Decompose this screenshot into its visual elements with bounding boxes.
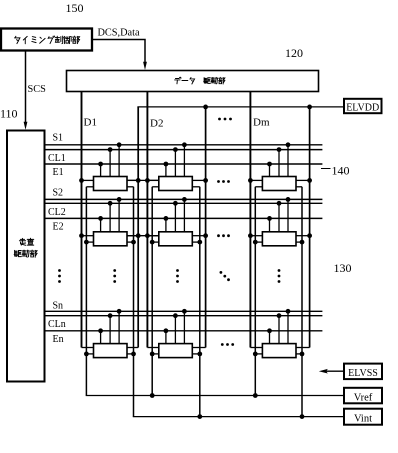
Vint chain line col 1: [133, 187, 135, 417]
ELVDD column line col 2: [205, 107, 207, 348]
svg-text:110: 110: [0, 107, 18, 121]
svg-text:S2: S2: [53, 187, 64, 198]
ellipsis pixel row 1: [217, 180, 220, 183]
svg-text:DCS,Data: DCS,Data: [98, 27, 140, 38]
Vref chain line col 2: [151, 187, 153, 396]
pixel Pnm wire to Vint chain: [296, 353, 302, 355]
pixel P12 junction on E line: [164, 162, 169, 167]
pixel P1m wire loop to Vint chain: [296, 186, 302, 188]
pixel P1m junction on ELVDD column: [307, 178, 312, 183]
Vint supply box: [344, 409, 382, 425]
pixel Pnm box: [262, 344, 296, 358]
pixel P2m group: [248, 197, 312, 246]
pixel Pn1 junction on Vref chain: [84, 352, 89, 357]
pixel Pn1 wire stub to E line: [100, 331, 102, 344]
pixel P22 wire stub to E line: [165, 218, 167, 231]
ellipsis between D2 and Dm labels: [218, 118, 221, 121]
pixel Pn1 box: [94, 344, 128, 358]
wire Vref rail: [86, 395, 344, 397]
pixel P2m junction on Vint chain: [300, 240, 305, 245]
pixel Pnm wire corner from ELVDD column: [296, 347, 310, 349]
pixel Pnm wire corner from data line: [250, 347, 262, 349]
data line Dm vertical: [249, 92, 251, 348]
svg-text:D2: D2: [150, 118, 163, 130]
pixel P22 group: [145, 197, 208, 246]
junction Vref rail col 2: [150, 393, 155, 398]
pixel P22 wire to data line: [147, 235, 158, 237]
pixel P12 junction on CL line: [173, 147, 178, 152]
pixel P12 wire stub to S line: [183, 145, 185, 177]
pixel P11 wire to ELVDD column: [127, 179, 138, 181]
pixel P2m junction on data line: [248, 233, 253, 238]
pixel P1m wire stub to S line: [287, 145, 289, 177]
pixel P12 wire stub to CL line: [174, 150, 176, 177]
pixel Pn2 junction on S line: [182, 309, 187, 314]
svg-text:ELVDD: ELVDD: [346, 102, 379, 113]
pixel Pn1 junction on Vint chain: [131, 352, 136, 357]
emission line E1: [45, 163, 323, 165]
pixel P21 wire to ELVDD column: [127, 235, 138, 237]
pixel Pn2 wire stub to CL line: [174, 316, 176, 344]
pixel P22 junction on ELVDD column: [203, 233, 208, 238]
pixel P11 junction on data line: [79, 178, 84, 183]
pixel P2m wire to Vint chain: [296, 241, 302, 243]
pixel P21 box: [94, 232, 128, 246]
pixel P22 junction on S line: [182, 197, 187, 202]
junction Vint rail col 2: [197, 414, 202, 419]
scan line S2: [45, 198, 323, 200]
pixel P22 box: [159, 232, 193, 246]
pixel Pn1 wire corner from data line: [82, 347, 94, 349]
pixel P22 wire to Vint chain: [192, 241, 200, 243]
pixel P2m wire stub to E line: [269, 218, 271, 231]
pixel P2m junction on ELVDD column: [307, 233, 312, 238]
pixel Pn2 junction on Vint chain: [197, 352, 202, 357]
pixel Pnm wire stub to CL line: [278, 316, 280, 344]
wire Vint rail: [133, 416, 344, 418]
ellipsis rows column 2: [176, 269, 179, 272]
pixel P22 junction on data line: [145, 233, 150, 238]
arrowhead DCS,Data: [143, 62, 147, 70]
pixel P11 junction on CL line: [108, 147, 113, 152]
ellipsis pixel row n: [221, 343, 224, 346]
pixel Pn2 wire stub to S line: [183, 311, 185, 343]
pixel P1m junction on S line: [286, 142, 291, 147]
arrowhead SCS: [24, 122, 28, 130]
pixel P2m wire to ELVDD column: [296, 235, 310, 237]
arrowhead ELVSS: [319, 369, 328, 374]
pixel P1m wire to ELVDD column: [296, 179, 310, 181]
pixel P12 wire loop to Vref chain: [152, 186, 159, 188]
pixel P11 wire loop to Vref chain: [86, 186, 93, 188]
svg-text:CL2: CL2: [48, 207, 66, 218]
wire ELVSS arrow line: [325, 370, 344, 372]
svg-text:D1: D1: [84, 117, 97, 129]
pixel P11 wire stub to CL line: [109, 150, 111, 177]
pixel Pn1 junction on E line: [98, 328, 103, 333]
pixel P12 junction on data line: [145, 178, 150, 183]
pixel P21 junction on data line: [79, 233, 84, 238]
pixel P21 junction on Vref chain: [84, 240, 89, 245]
pixel P2m wire to data line: [250, 235, 262, 237]
pixel P21 junction on E line: [98, 216, 103, 221]
svg-text:Vint: Vint: [354, 414, 372, 425]
ELVDD column line col 1: [137, 107, 139, 348]
junction Vref rail col m: [253, 393, 258, 398]
pixel P1m junction on CL line: [277, 147, 282, 152]
pixel P1m wire loop to Vref chain: [255, 186, 262, 188]
pixel P11 junction on ELVDD column: [136, 178, 141, 183]
ellipsis rows label column: [58, 269, 61, 272]
pixel Pn1 wire stub to CL line: [109, 316, 111, 344]
pixel P1m wire to data line: [250, 179, 262, 181]
pixel P11 box: [94, 177, 128, 191]
control line CLn: [45, 315, 323, 317]
junction ELVDD rail column m: [307, 105, 312, 110]
pixel P22 wire stub to CL line: [174, 203, 176, 232]
pixel P21 wire stub to CL line: [109, 203, 111, 232]
pixel Pn2 wire to Vref chain: [152, 353, 159, 355]
pixel P12 wire to ELVDD column: [192, 179, 205, 181]
pixel Pn1 wire stub to S line: [118, 311, 120, 343]
pixel P21 wire stub to E line: [100, 218, 102, 231]
pixel Pn1 wire to Vref chain: [86, 353, 93, 355]
ELVDD supply box: [344, 99, 382, 113]
pixel P22 junction on Vref chain: [150, 240, 155, 245]
pixel P22 wire to ELVDD column: [192, 235, 205, 237]
Vref chain line col m: [254, 187, 256, 396]
pixel Pn2 wire corner from data line: [147, 347, 158, 349]
pixel P21 junction on Vint chain: [131, 240, 136, 245]
pixel P2m wire to Vref chain: [255, 241, 262, 243]
pixel Pnm junction on E line: [267, 328, 272, 333]
pixel Pn1 junction on S line: [117, 309, 122, 314]
pixel P22 wire stub to S line: [183, 199, 185, 231]
Vint chain line col m: [301, 187, 303, 417]
svg-text:CL1: CL1: [48, 153, 66, 164]
wire DCS,Data from timing controller to data driver: [92, 40, 145, 64]
svg-text:Sn: Sn: [53, 300, 64, 311]
pixel P1m wire stub to E line: [269, 164, 271, 177]
ellipsis diagonal rows-columns: [220, 271, 223, 274]
pixel P21 junction on S line: [117, 197, 122, 202]
pixel P21 wire to Vint chain: [127, 241, 134, 243]
pixel P21 wire to data line: [82, 235, 94, 237]
pixel P2m box: [262, 232, 296, 246]
pixel P2m junction on E line: [267, 216, 272, 221]
data line D2 vertical: [146, 92, 148, 348]
pixel Pnm wire stub to E line: [269, 331, 271, 344]
pixel P2m wire stub to CL line: [278, 203, 280, 232]
pixel Pnm junction on Vint chain: [300, 352, 305, 357]
pixel P2m wire stub to S line: [287, 199, 289, 231]
pixel P11 wire loop to Vint chain: [127, 186, 134, 188]
pixel Pnm junction on CL line: [277, 313, 282, 318]
pixel P12 group: [145, 142, 208, 190]
svg-text:En: En: [53, 334, 64, 345]
pixel Pnm junction on S line: [286, 309, 291, 314]
pixel Pn2 wire stub to E line: [165, 331, 167, 344]
pixel P1m junction on data line: [248, 178, 253, 183]
pixel P1m group: [248, 142, 312, 190]
svg-text:130: 130: [334, 261, 352, 275]
ellipsis pixel row 2: [217, 234, 220, 237]
pixel P12 wire stub to E line: [165, 164, 167, 177]
pixel Pn2 box: [159, 344, 193, 358]
timing controller U150 box: [1, 29, 92, 51]
svg-text:ELVSS: ELVSS: [348, 368, 378, 379]
pixel P21 junction on CL line: [108, 201, 113, 206]
pixel Pn2 junction on Vref chain: [150, 352, 155, 357]
data driver U120 box: [67, 71, 319, 92]
ellipsis rows column m: [278, 269, 281, 272]
label data driver text: [175, 77, 181, 84]
junction Vint rail col m: [300, 414, 305, 419]
pixel P11 group: [79, 142, 141, 190]
pixel P11 junction on S line: [117, 142, 122, 147]
scan line S1: [45, 144, 323, 146]
pixel Pn2 wire corner from ELVDD column: [192, 347, 205, 349]
emission line En: [45, 330, 323, 332]
pixel P11 wire to data line: [82, 179, 94, 181]
pixel P21 junction on ELVDD column: [136, 233, 141, 238]
pixel P11 junction on E line: [98, 162, 103, 167]
label timing controller text: [15, 36, 20, 43]
pixel Pn2 wire to Vint chain: [192, 353, 200, 355]
wire ELVDD rail: [137, 106, 344, 108]
ELVDD column line col m: [309, 107, 311, 348]
pixel P12 junction on ELVDD column: [203, 178, 208, 183]
pixel P2m junction on Vref chain: [253, 240, 258, 245]
pixel P1m box: [262, 177, 296, 191]
pixel P2m junction on CL line: [277, 201, 282, 206]
scan line Sn: [45, 310, 323, 312]
pixel Pn1 group: [82, 309, 139, 358]
wire between pixel row 1 col1-col2: [127, 179, 159, 181]
control line CL1: [45, 149, 323, 151]
ellipsis rows column 1: [113, 269, 116, 272]
pixel Pn2 junction on CL line: [173, 313, 178, 318]
Vref chain line col 1: [85, 187, 87, 396]
pixel P11 wire stub to E line: [100, 164, 102, 177]
pixel Pn1 wire to Vint chain: [127, 353, 134, 355]
svg-text:E1: E1: [53, 167, 64, 178]
svg-text:120: 120: [285, 46, 303, 60]
ELVSS supply box: [344, 364, 382, 380]
control line CL2: [45, 202, 323, 204]
pixel Pnm wire to Vref chain: [255, 353, 262, 355]
pixel P12 box: [159, 177, 193, 191]
scan driver U110 box: [7, 131, 45, 382]
svg-text:E2: E2: [53, 222, 64, 233]
svg-text:SCS: SCS: [28, 84, 47, 95]
pixel Pn1 wire corner from ELVDD column: [127, 347, 138, 349]
svg-text:S1: S1: [53, 132, 64, 143]
svg-text:Vref: Vref: [354, 392, 373, 403]
wire SCS from timing controller to scan driver: [25, 51, 27, 125]
pixel Pnm group: [250, 309, 309, 358]
pixel P2m junction on S line: [286, 197, 291, 202]
label 140 with leader: [321, 168, 331, 170]
pixel P21 group: [79, 197, 141, 246]
svg-text:Dm: Dm: [253, 117, 270, 129]
pixel P21 wire to Vref chain: [86, 241, 93, 243]
pixel Pn1 junction on CL line: [108, 313, 113, 318]
pixel Pn2 junction on E line: [164, 328, 169, 333]
pixel P21 wire stub to S line: [118, 199, 120, 231]
svg-text:CLn: CLn: [48, 319, 66, 330]
pixel P22 wire to Vref chain: [152, 241, 159, 243]
data line D1 vertical: [81, 92, 83, 348]
pixel P12 wire to data line: [147, 179, 158, 181]
pixel P22 junction on Vint chain: [197, 240, 202, 245]
pixel P1m wire stub to CL line: [278, 150, 280, 177]
pixel Pnm junction on Vref chain: [253, 352, 258, 357]
pixel P22 junction on CL line: [173, 201, 178, 206]
pixel Pn2 group: [147, 309, 205, 358]
Vref supply box: [344, 388, 382, 404]
svg-text:140: 140: [332, 164, 350, 178]
pixel P1m junction on E line: [267, 162, 272, 167]
pixel P12 wire loop to Vint chain: [192, 186, 200, 188]
wire between pixel row 2 col1-col2: [127, 235, 159, 237]
svg-text:150: 150: [66, 1, 84, 15]
label scan driver text line1: [19, 238, 25, 245]
label scan driver text line2: [14, 250, 21, 256]
Vint chain line col 2: [199, 187, 201, 417]
pixel P22 junction on E line: [164, 216, 169, 221]
pixel P12 junction on S line: [182, 142, 187, 147]
pixel Pnm wire stub to S line: [287, 311, 289, 343]
pixel P11 wire stub to S line: [118, 145, 120, 177]
junction ELVDD rail column 2: [203, 105, 208, 110]
emission line E2: [45, 217, 323, 219]
